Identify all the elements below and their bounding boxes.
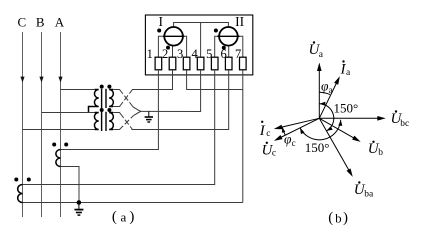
svg-text:150°: 150° xyxy=(305,140,330,155)
arrow on phase A xyxy=(58,77,62,83)
meter element II current coil line xyxy=(217,35,239,37)
polarity dot terminal 5 xyxy=(214,29,218,33)
wire terminal6 to circle II bottom xyxy=(228,46,230,58)
svg-text:B: B xyxy=(36,15,45,30)
wire terminal7 to coil II right xyxy=(240,36,243,57)
terminal rect 6 xyxy=(225,57,232,70)
PT2 polarity dot secondary xyxy=(107,108,111,112)
wire terminal2 to PT secondary a xyxy=(135,70,173,90)
label Ic xyxy=(259,121,271,139)
svg-text:3: 3 xyxy=(177,47,183,61)
wire terminal1 to coil I left xyxy=(158,36,162,57)
wire terminal5 down to CT-C top lead xyxy=(23,70,215,185)
ground symbol at PT secondary xyxy=(145,112,153,123)
PT1 secondary crossed lead a xyxy=(113,90,141,112)
svg-text:c: c xyxy=(292,138,296,148)
svg-text:II: II xyxy=(235,14,244,29)
label Ia xyxy=(340,60,352,78)
vector Uc xyxy=(274,118,319,141)
wire C to PT2 primary bottom xyxy=(23,129,95,131)
terminal rect 5 xyxy=(211,57,218,70)
CT C polarity dot right xyxy=(27,178,31,182)
PT1 primary winding xyxy=(89,90,99,113)
meter element I current coil line xyxy=(163,35,185,37)
wire phase B bus xyxy=(41,32,43,217)
label phi c xyxy=(284,132,296,149)
label Ua xyxy=(309,41,324,60)
vector Ia xyxy=(319,76,340,118)
svg-text:b: b xyxy=(378,148,383,158)
terminal rect 7 xyxy=(240,57,247,70)
svg-text:ba: ba xyxy=(364,190,374,200)
wire terminal1 down to CT-A top lead xyxy=(61,70,159,150)
svg-text:A: A xyxy=(55,15,65,30)
vector Uba xyxy=(319,118,352,177)
wire terminal3 to coil I right xyxy=(184,36,186,57)
arrow on phase C xyxy=(20,77,24,83)
svg-text:c: c xyxy=(266,129,270,139)
PT2 core xyxy=(101,112,103,131)
wire phase C bus xyxy=(22,32,24,217)
svg-text:): ) xyxy=(129,209,134,225)
svg-text:150°: 150° xyxy=(334,100,359,115)
CT A polarity dot left xyxy=(52,143,56,147)
vector Ubc xyxy=(319,116,386,121)
wire B to PT junction xyxy=(42,112,95,114)
PT1 secondary crossed lead b xyxy=(113,90,134,107)
terminal rect 3 xyxy=(183,57,190,70)
meter element I circle xyxy=(164,27,183,46)
PT1 core xyxy=(101,89,103,108)
crossing breaks bottom PT xyxy=(123,118,131,127)
terminal rect 4 xyxy=(197,57,204,70)
ground symbol at CT common xyxy=(74,203,83,216)
label Ub xyxy=(368,141,383,158)
svg-text:a: a xyxy=(319,50,324,60)
PT1 secondary winding xyxy=(109,90,113,107)
svg-text:b: b xyxy=(335,210,342,225)
arc phi c xyxy=(282,127,285,135)
PT2 secondary winding xyxy=(109,113,113,130)
vector Ua xyxy=(317,63,322,119)
wire terminal3 to common return xyxy=(187,70,243,90)
arc 150 upper Ua to Uba xyxy=(319,102,333,131)
wire terminal4 up to voltage link xyxy=(200,23,202,58)
arrow on phase B xyxy=(39,77,43,83)
meter element II circle xyxy=(219,27,238,46)
CT A polarity dot right xyxy=(64,143,68,147)
CT A secondary winding xyxy=(56,150,61,167)
CT C secondary winding xyxy=(18,185,23,203)
wire phase A bus xyxy=(60,32,62,217)
CT C polarity dot left xyxy=(14,178,18,182)
svg-text:a: a xyxy=(346,68,351,78)
PT2 polarity dot primary xyxy=(100,108,104,112)
svg-text:a: a xyxy=(329,85,333,95)
PT1 polarity dot secondary xyxy=(107,85,111,89)
svg-text:2: 2 xyxy=(162,47,168,61)
svg-text:I: I xyxy=(259,123,266,139)
wire voltage link between element tops xyxy=(174,23,229,28)
meter box xyxy=(145,15,252,75)
PT2 secondary crossed lead a xyxy=(113,113,132,130)
wire bottom common xyxy=(23,202,243,204)
svg-text:): ) xyxy=(343,210,348,226)
label Uba xyxy=(354,181,374,199)
label Ubc xyxy=(391,110,410,129)
crossing breaks top PT xyxy=(123,94,131,103)
polarity dot element I voltage xyxy=(166,46,170,50)
wire terminal6 to PT secondary c xyxy=(132,70,229,130)
vector Ic xyxy=(274,118,319,129)
polarity dot element II voltage xyxy=(222,46,226,50)
polarity dot terminal 1 xyxy=(157,29,161,33)
wire terminal5 to coil II left xyxy=(215,36,218,57)
vector Ub xyxy=(319,118,360,142)
wire terminal7 down to bottom common xyxy=(242,70,244,203)
svg-text:a: a xyxy=(121,209,127,224)
PT2 secondary crossed lead b xyxy=(113,111,141,129)
terminal rect 2 xyxy=(169,57,176,70)
svg-text:bc: bc xyxy=(400,119,409,129)
wire A to PT1 primary top xyxy=(61,89,95,91)
PT2 primary winding xyxy=(94,113,98,130)
svg-text:c: c xyxy=(272,149,276,159)
PT1 polarity dot primary xyxy=(100,85,104,89)
arc 150 lower Uc to Ubc xyxy=(300,120,342,140)
svg-text:I: I xyxy=(158,14,163,29)
arc phi a xyxy=(319,92,330,94)
wire CT-A bottom lead to ground node xyxy=(61,167,80,203)
label Uc xyxy=(262,142,277,159)
svg-text:C: C xyxy=(17,15,26,30)
wire terminal2 to circle I bottom xyxy=(172,46,174,58)
svg-text:(: ( xyxy=(328,210,333,226)
svg-text:1: 1 xyxy=(147,47,153,61)
terminal rect 1 xyxy=(155,57,162,70)
svg-text:(: ( xyxy=(112,209,117,225)
junction dot ground node xyxy=(77,200,82,205)
label phi a xyxy=(321,79,333,96)
wire terminal4 to PT secondary common xyxy=(141,70,201,112)
